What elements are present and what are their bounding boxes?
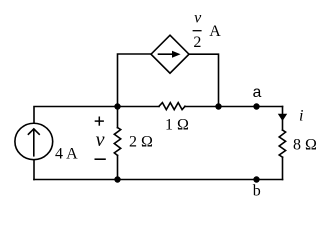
svg-text:i: i bbox=[299, 108, 303, 125]
wire right vertical lower bbox=[282, 157, 284, 179]
resistor R3 8ohm zigzag bbox=[279, 130, 285, 157]
svg-text:8 Ω: 8 Ω bbox=[293, 137, 317, 154]
wire main middle right segment bbox=[185, 106, 283, 108]
resistor R1 2ohm zigzag bbox=[114, 128, 120, 156]
svg-text:2: 2 bbox=[193, 34, 201, 51]
node b dot bbox=[253, 176, 259, 182]
svg-text:2 Ω: 2 Ω bbox=[129, 133, 153, 150]
resistor R2 1ohm zigzag bbox=[159, 103, 185, 110]
dependent current source U1 diamond with arrow bbox=[151, 35, 189, 73]
junction node dot at 1ohm right / diamond branch bbox=[215, 103, 221, 109]
svg-text:b: b bbox=[253, 183, 261, 200]
svg-text:A: A bbox=[209, 23, 221, 40]
svg-text:v: v bbox=[194, 10, 202, 27]
wire 2ohm top lead bbox=[117, 107, 119, 128]
junction node dot at 2ohm bottom bbox=[114, 176, 120, 182]
node a dot bbox=[253, 103, 259, 109]
current i arrowhead on right branch bbox=[278, 114, 287, 121]
wire left vertical lower bbox=[33, 161, 35, 180]
label v/2 A fraction bar bbox=[193, 30, 202, 32]
label minus sign of v bbox=[95, 158, 106, 160]
wire top branch left (junction up and right to diamond) bbox=[118, 54, 152, 107]
wire top branch right (diamond to corner and down) bbox=[189, 54, 219, 106]
label plus sign of v bbox=[95, 117, 104, 126]
wire 2ohm bottom lead bbox=[117, 155, 119, 179]
wire right vertical upper bbox=[282, 107, 284, 131]
svg-text:1 Ω: 1 Ω bbox=[165, 117, 189, 134]
wire main middle left segment bbox=[34, 107, 159, 123]
svg-text:4 A: 4 A bbox=[55, 145, 78, 162]
svg-text:a: a bbox=[252, 84, 262, 102]
wire bottom bbox=[34, 179, 283, 181]
junction node dot at 2ohm top bbox=[114, 103, 120, 109]
svg-text:v: v bbox=[96, 129, 105, 151]
current source I1 4A circle and arrow bbox=[15, 123, 53, 159]
